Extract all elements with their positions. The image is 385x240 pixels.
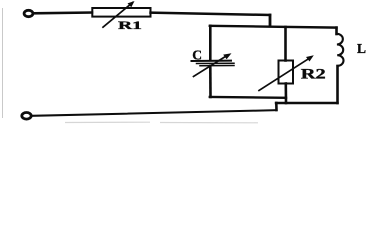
svg-text:R1: R1 <box>118 20 142 32</box>
resistor R2 branch lower wire <box>284 84 287 104</box>
bottom wire to terminal <box>32 110 277 116</box>
svg-text:C: C <box>192 48 202 63</box>
wire R1 to top corner <box>151 13 271 15</box>
capacitor C lower plate <box>197 62 235 64</box>
svg-text:L: L <box>357 41 366 56</box>
capacitor C upper plate <box>192 60 232 62</box>
scan artifact: faint bottom smudge <box>65 121 258 124</box>
junction connector to bottom wire <box>275 103 278 110</box>
top rail <box>210 26 337 28</box>
arrow of C <box>194 53 232 76</box>
capacitor C branch lower wire <box>209 66 212 97</box>
svg-text:R2: R2 <box>301 67 326 83</box>
inductor L branch bottom wire <box>336 66 339 103</box>
resistor R1 <box>92 8 150 17</box>
terminal bottom-left <box>22 113 31 120</box>
scan artifact: faint left edge line <box>2 8 4 118</box>
arrow of R1 <box>103 1 135 27</box>
bottom rail left segment <box>210 96 286 99</box>
terminal top-left <box>24 10 33 16</box>
arrow of R2 <box>259 55 314 90</box>
inductor L coil <box>337 34 344 66</box>
wire corner down <box>269 15 272 26</box>
inductor L branch top wire <box>335 28 338 34</box>
wire top-left to R1 <box>34 11 93 14</box>
resistor R2 box <box>279 61 294 84</box>
capacitor C branch upper wire <box>209 26 212 60</box>
resistor R2 branch upper wire <box>284 27 287 61</box>
bottom rail right segment <box>276 102 338 104</box>
